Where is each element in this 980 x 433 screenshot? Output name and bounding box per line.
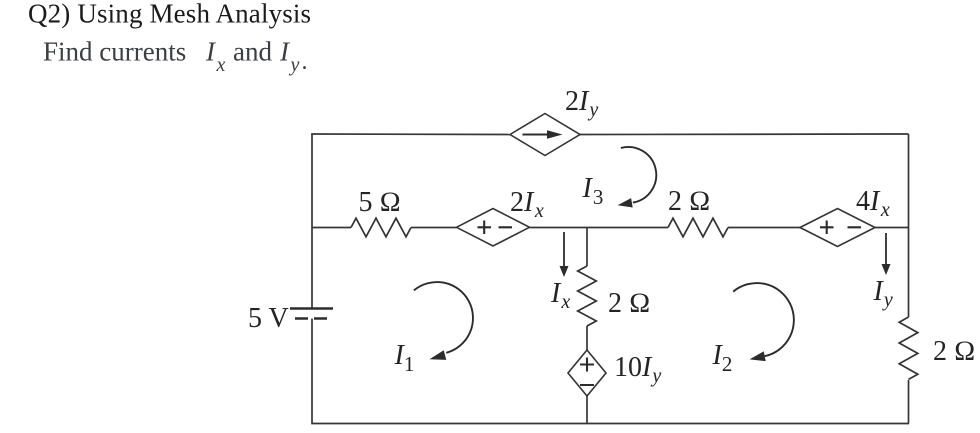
battery V1 5V [290,309,333,319]
branch current arrow Ix [560,232,569,277]
wire bottom [311,423,909,425]
mesh arrow I1 [414,282,473,360]
svg-text:x: x [216,54,226,76]
resistor R 2ohm top middle [668,218,728,237]
mesh arrow I3 [618,147,657,208]
wire top right segment [580,133,909,136]
svg-text:2 Ω: 2 Ω [933,336,976,367]
resistor R 2ohm center branch [578,266,597,326]
wire left vertical top part [311,134,313,309]
mesh arrow I2 [733,283,794,361]
svg-text:5 V: 5 V [248,303,289,334]
wire center branch: node to resistor [586,228,588,267]
svg-text:.: . [302,49,308,75]
wire middle: left to 5ohm [312,227,351,229]
branch current arrow Iy [882,233,891,275]
wire center branch: 10Iy source to bottom [586,396,588,424]
svg-text:5 Ω: 5 Ω [359,187,402,218]
dependent voltage source 10Iy (bottom center) [568,350,606,396]
svg-text:2 Ω: 2 Ω [608,288,651,319]
svg-text:Find currents: Find currents [43,37,186,67]
wire right vertical lower [908,380,910,424]
dependent voltage source 4Ix [800,209,875,247]
dependent current source 2Iy (top) [510,114,580,156]
wire middle: 4Ix source to right edge [875,227,909,229]
svg-text:2 Ω: 2 Ω [668,186,711,217]
wire top left segment [311,133,510,136]
wire left vertical bottom part [311,319,313,424]
wire middle: 2Ix source to 2ohm [530,227,669,229]
svg-text:and: and [233,37,272,67]
svg-text:y: y [289,54,300,76]
resistor R 5ohm [351,218,411,237]
title line 2 [43,37,308,77]
wire center branch: resistor to 10Iy source [586,326,588,350]
wire right vertical upper [908,134,910,317]
wire middle: 2ohm to 4Ix source [728,227,800,229]
dependent voltage source 2Ix [457,209,530,247]
svg-text:Q2) Using Mesh Analysis: Q2) Using Mesh Analysis [28,0,311,29]
wire middle: 5ohm to 2Ix source [411,227,457,229]
resistor R 2ohm right branch [899,317,918,379]
